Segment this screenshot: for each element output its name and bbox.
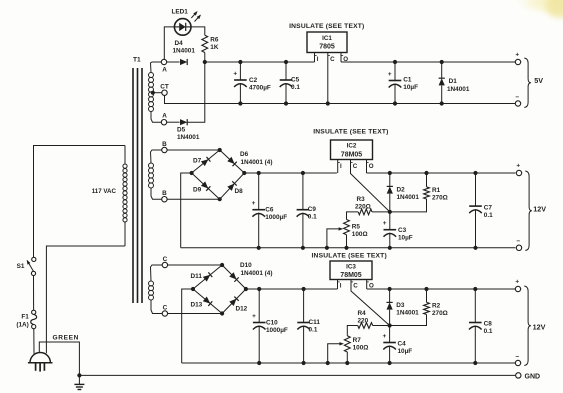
svg-text:+: + bbox=[516, 163, 520, 170]
wire primary top to switch bbox=[34, 146, 126, 258]
svg-text:B: B bbox=[162, 190, 167, 197]
svg-text:+: + bbox=[515, 52, 519, 59]
wire GND rail bbox=[79, 374, 515, 376]
IC2 pin I bbox=[338, 160, 342, 174]
diode D13 bbox=[203, 297, 213, 306]
svg-text:12V: 12V bbox=[533, 323, 546, 332]
node bridge2 top bbox=[218, 148, 222, 152]
wire 12V mid input rail bbox=[244, 172, 337, 174]
svg-text:−: − bbox=[516, 238, 520, 245]
node C6 bottom bbox=[257, 246, 261, 250]
diode D4 bbox=[180, 59, 187, 65]
transformer T1 secondary winding B (middle) bbox=[149, 150, 162, 199]
svg-text:R2: R2 bbox=[432, 303, 441, 310]
transformer T1 secondary winding A (top) bbox=[149, 62, 162, 122]
svg-text:1N4001: 1N4001 bbox=[447, 86, 470, 93]
resistor R2 bbox=[390, 289, 430, 326]
node bridge2 right bbox=[242, 171, 246, 175]
transformer T1 label bbox=[133, 57, 141, 64]
label LED1 bbox=[172, 9, 189, 16]
capacitor C5 bbox=[280, 62, 293, 104]
svg-text:C8: C8 bbox=[484, 321, 493, 328]
node R5 bottom bbox=[344, 246, 348, 250]
svg-text:D4: D4 bbox=[175, 40, 184, 47]
label D11 bbox=[191, 273, 203, 280]
svg-text:C5: C5 bbox=[291, 77, 300, 84]
potentiometer R7 bbox=[344, 336, 350, 363]
svg-text:(1A): (1A) bbox=[16, 321, 28, 328]
node C11 bottom bbox=[302, 361, 306, 365]
terminal 5V plus bbox=[515, 52, 520, 65]
op-amp IC2 regulator 78M05 bbox=[331, 140, 373, 160]
label R5 bbox=[352, 224, 368, 239]
capacitor C10 bbox=[252, 289, 265, 363]
svg-text:INSULATE (SEE TEXT): INSULATE (SEE TEXT) bbox=[313, 129, 388, 136]
label D13 bbox=[191, 302, 203, 309]
svg-text:D12: D12 bbox=[236, 306, 248, 313]
node C1 top bbox=[393, 60, 397, 64]
diode D9 bbox=[201, 181, 211, 190]
svg-text:I: I bbox=[317, 56, 319, 63]
label C2 bbox=[249, 77, 271, 92]
wire bridge2 frame bbox=[192, 150, 245, 199]
svg-text:78M05: 78M05 bbox=[340, 272, 362, 279]
svg-text:0.1: 0.1 bbox=[308, 214, 317, 221]
terminal 12V mid minus bbox=[516, 238, 521, 251]
IC3 pin I bbox=[338, 280, 342, 290]
wire C top to bridge bbox=[168, 264, 223, 266]
diode D7 bbox=[201, 157, 211, 166]
svg-text:R5: R5 bbox=[352, 224, 361, 231]
LED1 arrows bbox=[191, 11, 201, 22]
svg-text:1N4001: 1N4001 bbox=[397, 194, 420, 201]
node C3 bottom bbox=[388, 246, 392, 250]
svg-text:C9: C9 bbox=[308, 206, 317, 213]
svg-text:S1: S1 bbox=[17, 263, 25, 270]
label C7 bbox=[484, 205, 493, 220]
R7 wiper bbox=[328, 342, 344, 363]
node bridge2 bottom bbox=[218, 197, 222, 201]
svg-text:INSULATE (SEE TEXT): INSULATE (SEE TEXT) bbox=[312, 253, 387, 260]
node D1 bottom bbox=[440, 101, 444, 105]
transformer T1 core bbox=[133, 68, 142, 303]
node C6 top bbox=[257, 171, 261, 175]
node R5 wiper on rail bbox=[325, 246, 329, 250]
svg-text:D11: D11 bbox=[191, 273, 203, 280]
node C7 bottom bbox=[473, 246, 477, 250]
capacitor C4 bbox=[383, 326, 396, 364]
node C2 top bbox=[238, 60, 242, 64]
diode D10 bbox=[229, 272, 238, 281]
svg-text:C1: C1 bbox=[403, 77, 412, 84]
wire S1 to F1 bbox=[33, 276, 35, 311]
svg-text:IC3: IC3 bbox=[346, 263, 356, 270]
wire 12V bot input rail bbox=[246, 288, 338, 290]
node R2 top bbox=[424, 287, 428, 291]
node bridge3 right bbox=[244, 287, 248, 291]
svg-text:1N4001 (4): 1N4001 (4) bbox=[241, 270, 273, 277]
label C10 bbox=[266, 320, 288, 335]
R5 wiper bbox=[327, 227, 343, 248]
svg-text:GND: GND bbox=[525, 373, 541, 380]
wire 5V input rail bbox=[205, 61, 315, 63]
node C10 bottom bbox=[257, 361, 261, 365]
wire LED1 left lead bbox=[164, 27, 174, 59]
node section3 adjust node bbox=[388, 323, 392, 327]
ground bbox=[74, 375, 84, 389]
label R7 bbox=[353, 337, 369, 352]
node C7 top bbox=[473, 171, 477, 175]
svg-text:R3: R3 bbox=[357, 196, 366, 203]
label GREEN bbox=[53, 335, 79, 342]
node D1 top bbox=[440, 60, 444, 64]
svg-text:+: + bbox=[383, 333, 387, 340]
svg-text:O: O bbox=[369, 282, 374, 289]
label R6 bbox=[210, 36, 219, 51]
svg-text:4700µF: 4700µF bbox=[249, 85, 271, 92]
wire F1 to plug bbox=[33, 329, 35, 354]
svg-text:F1: F1 bbox=[21, 313, 29, 320]
wire 12V bot ground rail bbox=[182, 362, 516, 364]
svg-text:1000µF: 1000µF bbox=[266, 327, 288, 334]
IC1 pin C bbox=[328, 53, 335, 104]
node bridge3 top bbox=[220, 263, 224, 267]
node C11 top bbox=[302, 287, 306, 291]
diode D6 bbox=[227, 157, 237, 166]
wire green ground lead bbox=[39, 342, 79, 375]
svg-text:5V: 5V bbox=[534, 76, 543, 85]
svg-text:D5: D5 bbox=[177, 127, 186, 134]
svg-text:D6: D6 bbox=[240, 151, 249, 158]
diode D3 bbox=[387, 289, 393, 326]
node C5 top bbox=[284, 60, 288, 64]
svg-text:0.1: 0.1 bbox=[484, 328, 493, 335]
svg-text:C: C bbox=[353, 163, 358, 170]
label C11 bbox=[309, 319, 321, 334]
label C8 bbox=[484, 321, 493, 336]
op-amp IC3 regulator 78M05 bbox=[330, 261, 372, 280]
svg-text:D13: D13 bbox=[191, 302, 203, 309]
node C8 bottom bbox=[473, 361, 477, 365]
diode D1 bbox=[439, 62, 445, 104]
svg-text:CT: CT bbox=[160, 83, 169, 90]
label D1 bbox=[447, 78, 470, 93]
label R2 bbox=[432, 303, 448, 318]
label D9 bbox=[193, 187, 202, 194]
svg-text:12V: 12V bbox=[533, 205, 546, 214]
wire 5V ground rail bbox=[165, 95, 516, 103]
label D8 bbox=[235, 188, 244, 195]
svg-text:LED1: LED1 bbox=[172, 9, 189, 16]
svg-text:C10: C10 bbox=[266, 320, 278, 327]
node C1 bottom bbox=[393, 101, 397, 105]
node ground junction bbox=[77, 373, 81, 377]
svg-text:0.1: 0.1 bbox=[309, 327, 318, 334]
label D12 bbox=[236, 306, 248, 313]
label D7 bbox=[193, 158, 202, 165]
svg-text:IC1: IC1 bbox=[322, 35, 332, 42]
terminal CT bbox=[160, 83, 169, 95]
svg-text:C7: C7 bbox=[484, 205, 493, 212]
terminal GND bbox=[516, 373, 540, 381]
wire 12V mid output rail bbox=[367, 172, 516, 174]
svg-text:1000µF: 1000µF bbox=[265, 214, 287, 221]
capacitor C9 bbox=[297, 173, 310, 248]
wire B bottom to bridge bbox=[167, 198, 220, 200]
svg-text:D1: D1 bbox=[449, 78, 458, 85]
resistor R3 bbox=[347, 209, 390, 220]
op-amp IC1 regulator 7805 bbox=[307, 32, 347, 53]
switch S1 bbox=[17, 257, 36, 275]
svg-text:D2: D2 bbox=[397, 187, 406, 194]
svg-text:100Ω: 100Ω bbox=[352, 231, 368, 238]
svg-text:10µF: 10µF bbox=[398, 235, 413, 242]
svg-text:C11: C11 bbox=[309, 319, 321, 326]
label C9 bbox=[308, 206, 317, 221]
terminal 12V bot plus bbox=[515, 279, 520, 292]
brace 12V bot output bbox=[524, 286, 531, 366]
diode D5 bbox=[180, 119, 187, 125]
svg-text:A: A bbox=[162, 113, 167, 120]
svg-text:100Ω: 100Ω bbox=[353, 345, 369, 352]
label 5V bbox=[534, 76, 543, 85]
IC3 pin C bbox=[351, 280, 390, 326]
svg-text:INSULATE (SEE TEXT): INSULATE (SEE TEXT) bbox=[289, 23, 364, 30]
node CT tap dot bbox=[151, 91, 162, 95]
svg-text:−: − bbox=[515, 353, 519, 360]
svg-text:C: C bbox=[163, 256, 168, 263]
wire bridge2 left to ground rail bbox=[181, 173, 192, 248]
terminal C top bbox=[162, 256, 167, 268]
wire 5V output rail bbox=[341, 61, 515, 63]
label C5 bbox=[291, 77, 300, 92]
wire 12V bot output rail bbox=[367, 288, 516, 290]
wire C bottom to bridge bbox=[168, 313, 223, 315]
label D4 bbox=[173, 40, 196, 54]
label 12V mid bbox=[533, 205, 546, 214]
label D6 bbox=[240, 151, 272, 166]
wire B top to bridge bbox=[167, 149, 220, 151]
label 117 VAC bbox=[92, 188, 117, 195]
svg-text:C3: C3 bbox=[398, 227, 407, 234]
IC2 pin C bbox=[351, 160, 390, 212]
capacitor C8 bbox=[469, 289, 482, 363]
terminal 12V mid plus bbox=[516, 163, 521, 176]
node C8 top bbox=[473, 287, 477, 291]
svg-text:C4: C4 bbox=[398, 341, 407, 348]
label D5 bbox=[177, 127, 200, 142]
svg-text:270Ω: 270Ω bbox=[432, 195, 448, 202]
LED LED1 bbox=[174, 19, 191, 36]
resistor R6 bbox=[202, 35, 208, 62]
svg-text:IC2: IC2 bbox=[347, 143, 357, 150]
svg-text:C: C bbox=[353, 282, 358, 289]
wire 12V mid ground rail bbox=[181, 247, 516, 249]
terminal A bottom bbox=[161, 113, 167, 125]
diode D2 bbox=[387, 173, 393, 212]
potentiometer R5 bbox=[344, 220, 350, 248]
node bridge3 left bbox=[191, 287, 195, 291]
label D2 bbox=[397, 187, 420, 202]
diode D11 bbox=[203, 272, 213, 281]
terminal C bottom bbox=[162, 305, 167, 317]
resistor R1 bbox=[390, 173, 430, 212]
terminal B top bbox=[162, 141, 167, 153]
svg-text:+: + bbox=[233, 70, 237, 77]
node C5 bottom bbox=[284, 101, 288, 105]
label C6 bbox=[265, 207, 287, 222]
svg-text:I: I bbox=[340, 282, 342, 289]
svg-text:1N4001: 1N4001 bbox=[177, 134, 200, 141]
svg-text:270Ω: 270Ω bbox=[432, 310, 448, 317]
IC2 pin O bbox=[367, 160, 374, 174]
label D3 bbox=[396, 302, 419, 317]
diode D8 bbox=[227, 181, 236, 191]
resistor R4 bbox=[347, 323, 389, 336]
node R7 wiper on rail bbox=[326, 361, 330, 365]
svg-text:1N4001: 1N4001 bbox=[396, 310, 419, 317]
svg-text:D10: D10 bbox=[240, 262, 252, 269]
svg-text:T1: T1 bbox=[133, 57, 141, 64]
svg-text:C: C bbox=[330, 56, 335, 63]
svg-text:1K: 1K bbox=[210, 44, 219, 51]
node C4 bottom bbox=[388, 361, 392, 365]
node section2 adjust node bbox=[388, 210, 392, 214]
svg-text:D3: D3 bbox=[396, 302, 405, 309]
svg-text:220: 220 bbox=[358, 318, 369, 325]
IC1 pin O bbox=[341, 53, 348, 63]
capacitor C7 bbox=[469, 173, 482, 248]
terminal 5V minus bbox=[515, 94, 520, 106]
svg-text:220Ω: 220Ω bbox=[355, 204, 371, 211]
node D3 top bbox=[388, 287, 392, 291]
svg-text:−: − bbox=[515, 94, 519, 101]
label R1 bbox=[432, 187, 448, 202]
terminal B bottom bbox=[162, 190, 167, 202]
svg-text:0.1: 0.1 bbox=[291, 84, 300, 91]
brace 12V mid output bbox=[525, 171, 532, 251]
svg-text:117 VAC: 117 VAC bbox=[92, 188, 117, 195]
svg-text:D8: D8 bbox=[235, 188, 244, 195]
svg-text:D9: D9 bbox=[193, 187, 202, 194]
svg-text:78M05: 78M05 bbox=[341, 151, 363, 158]
AC plug bbox=[28, 353, 53, 372]
svg-text:7805: 7805 bbox=[319, 44, 335, 51]
wire A to D4 bbox=[167, 61, 180, 63]
svg-text:1N4001: 1N4001 bbox=[173, 47, 196, 54]
svg-text:+: + bbox=[383, 220, 387, 227]
svg-text:1N4001 (4): 1N4001 (4) bbox=[241, 159, 273, 166]
svg-text:+: + bbox=[252, 200, 256, 207]
diode D12 bbox=[229, 297, 238, 306]
brace 5V output bbox=[524, 58, 531, 108]
svg-text:C2: C2 bbox=[249, 77, 258, 84]
svg-text:D7: D7 bbox=[193, 158, 202, 165]
label D10 bbox=[240, 262, 272, 277]
terminal A top bbox=[161, 59, 167, 73]
svg-text:R4: R4 bbox=[358, 310, 367, 317]
svg-text:R7: R7 bbox=[353, 337, 362, 344]
svg-text:10µF: 10µF bbox=[403, 84, 418, 91]
node bridge3 bottom bbox=[220, 311, 224, 315]
capacitor C6 bbox=[252, 173, 265, 248]
node R7 bottom bbox=[345, 361, 349, 365]
svg-text:I: I bbox=[340, 163, 342, 170]
svg-text:B: B bbox=[162, 141, 167, 148]
wire D5 to input rail bbox=[187, 62, 204, 122]
svg-text:+: + bbox=[388, 71, 392, 78]
svg-text:C6: C6 bbox=[265, 207, 274, 214]
label C4 bbox=[398, 341, 413, 356]
wire primary bottom to plug bbox=[46, 246, 125, 353]
capacitor C3 bbox=[383, 212, 396, 248]
node R1 top bbox=[424, 171, 428, 175]
capacitor C11 bbox=[297, 289, 310, 363]
label INSULATE (SEE TEXT) for IC2 bbox=[313, 129, 388, 136]
svg-text:R1: R1 bbox=[432, 187, 441, 194]
IC3 pin O bbox=[367, 280, 374, 290]
wire A bottom to D5 bbox=[167, 121, 180, 123]
wire LED1 right lead bbox=[191, 27, 205, 35]
svg-text:GREEN: GREEN bbox=[53, 335, 79, 342]
svg-text:+: + bbox=[252, 313, 256, 320]
transformer T1 primary winding 117 VAC bbox=[123, 146, 127, 247]
label C1 bbox=[403, 77, 418, 92]
node C2 bottom bbox=[238, 101, 242, 105]
transformer T1 secondary winding C (bottom) bbox=[149, 265, 163, 314]
label R3 bbox=[355, 196, 371, 211]
label C3 bbox=[398, 227, 413, 242]
svg-text:10µF: 10µF bbox=[398, 348, 413, 355]
capacitor C1 bbox=[388, 62, 401, 104]
label INSULATE (SEE TEXT) for IC1 bbox=[289, 23, 364, 30]
svg-text:A: A bbox=[162, 67, 167, 74]
label 12V bot bbox=[533, 323, 546, 332]
node D2 top bbox=[388, 171, 392, 175]
svg-text:R6: R6 bbox=[210, 36, 219, 43]
wire bridge3 left to ground rail bbox=[182, 289, 193, 363]
node C9 bottom bbox=[301, 246, 305, 250]
node D4-R6 junction bbox=[203, 60, 207, 64]
svg-text:O: O bbox=[369, 163, 374, 170]
label INSULATE (SEE TEXT) for IC3 bbox=[312, 253, 387, 260]
fuse F1 bbox=[16, 310, 36, 329]
svg-text:+: + bbox=[515, 279, 519, 286]
node C10 top bbox=[257, 287, 261, 291]
node C9 top bbox=[301, 171, 305, 175]
terminal 12V bot minus bbox=[515, 353, 520, 365]
svg-text:C: C bbox=[163, 305, 168, 312]
IC1 pin I bbox=[315, 53, 319, 63]
node bridge2 left bbox=[190, 171, 194, 175]
wire bridge3 frame bbox=[193, 265, 246, 314]
label R4 bbox=[358, 310, 369, 325]
capacitor C2 bbox=[233, 62, 246, 104]
svg-text:0.1: 0.1 bbox=[484, 212, 493, 219]
node IC1 C pin to ground rail bbox=[326, 101, 330, 105]
